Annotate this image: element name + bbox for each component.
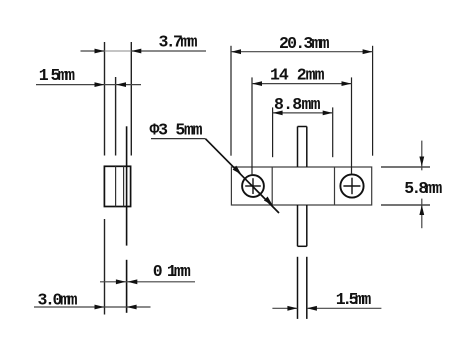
svg-text:1.5mm: 1.5mm — [336, 290, 372, 309]
svg-text:3.0mm: 3.0mm — [38, 291, 78, 310]
svg-text:Φ3 5mm: Φ3 5mm — [150, 120, 203, 139]
svg-text:14 2mm: 14 2mm — [270, 65, 325, 84]
svg-text:5.8mm: 5.8mm — [404, 179, 442, 198]
svg-text:8.8mm: 8.8mm — [274, 95, 321, 114]
svg-text:20.3mm: 20.3mm — [279, 34, 330, 53]
svg-text:5mm: 5mm — [51, 66, 76, 85]
svg-text:1: 1 — [39, 66, 49, 85]
svg-text:0 1mm: 0 1mm — [153, 262, 191, 281]
svg-text:3.7mm: 3.7mm — [159, 33, 198, 52]
